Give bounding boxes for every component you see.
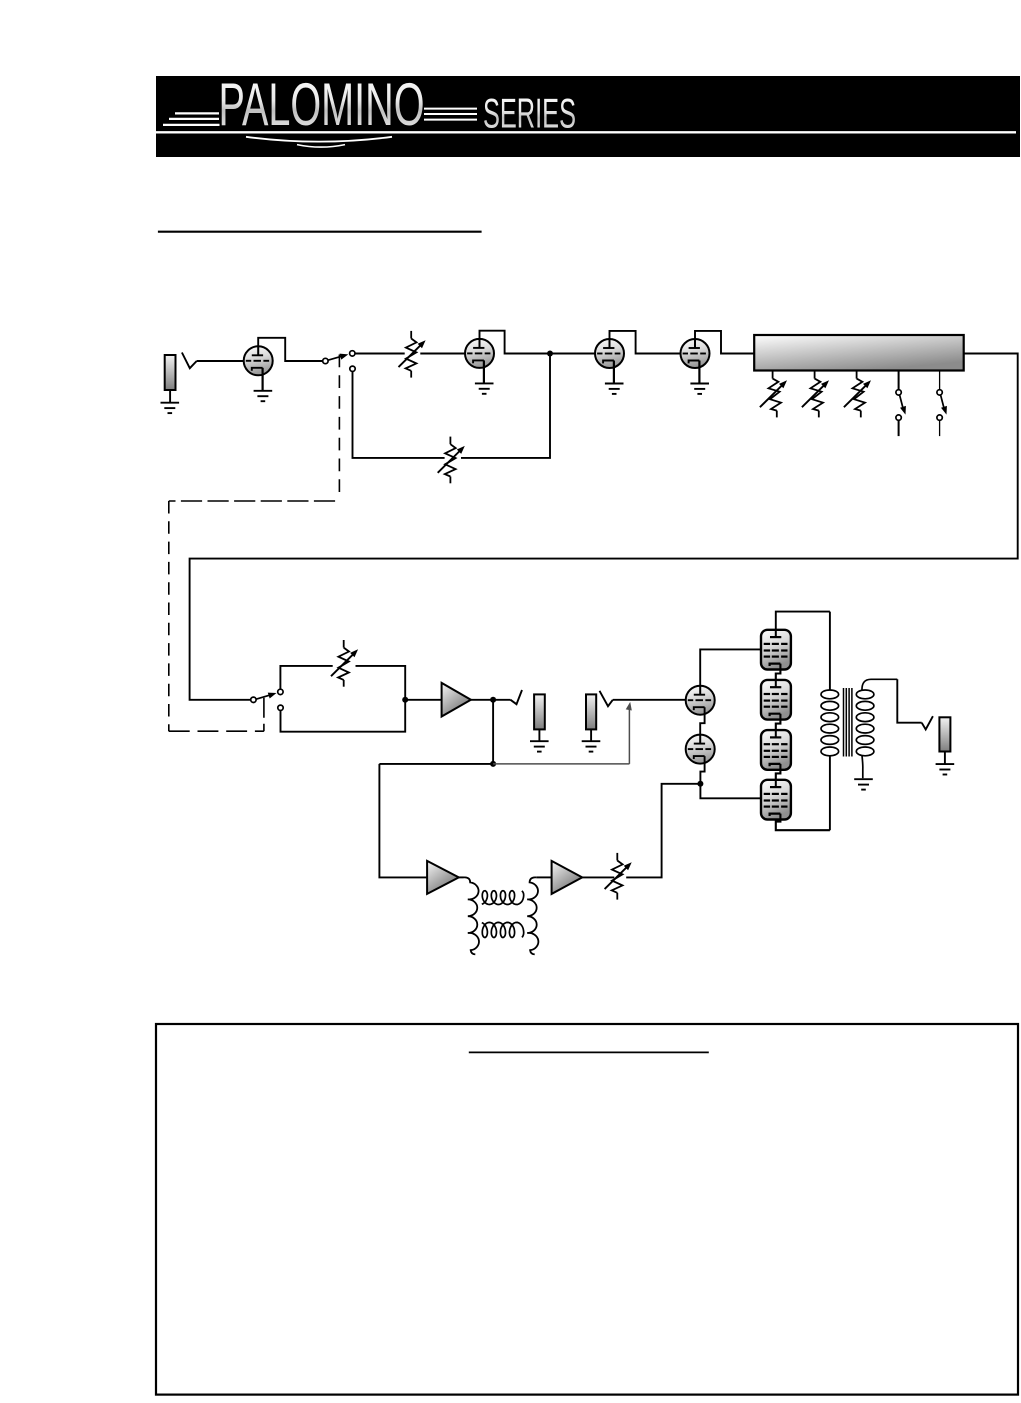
wire secondary to speaker jack	[897, 679, 921, 722]
wire node B to buffer amp	[405, 699, 441, 701]
output transformer T1 primary winding	[821, 612, 839, 831]
tone stack block U1	[754, 335, 964, 371]
triode tube V2B	[681, 339, 710, 368]
ground return jack	[582, 741, 601, 751]
channel select switch S1 pole	[323, 358, 328, 363]
switch S4 throw B	[278, 705, 283, 710]
ground speaker jack	[936, 764, 955, 774]
ground send jack	[530, 741, 549, 751]
node D junction	[490, 761, 496, 767]
wire input to V1A grid	[197, 360, 244, 362]
Palomino Series logo banner	[156, 70, 1020, 157]
wire throw A to gain pot	[355, 353, 405, 355]
notes title underline	[469, 1051, 709, 1053]
wire reverb pot to driver cathode node	[626, 784, 698, 878]
wire node E to power tube P4 grid	[700, 784, 761, 799]
wire A1 output to send node	[471, 699, 491, 701]
switch S1 throw A (drive channel)	[350, 351, 355, 356]
ground V1B cathode	[475, 383, 494, 393]
ground V1A cathode	[254, 391, 273, 401]
wire V2A cathode to ground	[613, 361, 615, 384]
wire node C to send jack	[493, 699, 510, 701]
wire bypass rail right (gray)	[493, 763, 629, 765]
triode tube V3A	[686, 686, 715, 715]
wire node C down to bypass rail	[492, 700, 494, 764]
power tube P4	[761, 780, 791, 820]
switch S3 (shape)	[937, 371, 950, 436]
reverb spring 2	[482, 922, 524, 937]
potentiometer R5 LEVEL	[438, 437, 467, 484]
wire gain pot to V1B grid	[420, 353, 465, 355]
potentiometer R3 MID	[802, 371, 831, 417]
wire jack J3 to ground	[590, 729, 592, 741]
wire A3 to reverb pot	[582, 876, 614, 878]
wire V2B cathode to ground	[698, 361, 700, 384]
node E junction	[697, 781, 703, 787]
wire clean volume pot to node A	[461, 354, 550, 458]
ground	[161, 403, 180, 413]
triode tube V1B	[465, 339, 494, 368]
svg-text:SERIES: SERIES	[483, 89, 576, 136]
wire P1 top to output transformer primary	[776, 612, 830, 630]
wire P2 cathode to P3	[776, 714, 781, 730]
ground V2B cathode	[690, 384, 709, 394]
reverb spring 1	[482, 891, 524, 905]
wire V1B plate to node A	[480, 331, 551, 354]
power tube P1	[761, 630, 791, 670]
wire P3 cathode to P4	[776, 764, 781, 780]
wire gray riser to return jack	[628, 707, 630, 764]
node A junction	[547, 351, 553, 357]
reverb recovery amp A3	[552, 861, 583, 894]
wire V1A plate to channel switch pole	[258, 338, 323, 361]
jack J4 speaker tip contact	[922, 716, 933, 729]
triode tube V2A	[595, 339, 624, 368]
wire return contact to driver V3A	[613, 699, 686, 701]
switch S1 blade	[328, 355, 345, 360]
wire P4 cathode to transformer primary bottom	[776, 814, 830, 831]
wire jack J4 to ground	[944, 752, 946, 764]
wire jack J2 to ground	[538, 729, 540, 741]
wire tone stack output to FX loop	[190, 354, 1018, 700]
wire reverb tap down	[379, 764, 427, 878]
wire V2A plate to V2B grid	[610, 331, 681, 354]
node B junction	[402, 697, 408, 703]
wire A2 to reverb tank	[459, 876, 464, 878]
dashed footswitch control line	[169, 355, 340, 732]
reverb drive amp A2	[427, 861, 459, 894]
wire tank to recovery amp A3	[536, 876, 551, 878]
output transformer T1 secondary winding	[856, 679, 897, 778]
wire V2B plate to tone stack	[695, 331, 754, 354]
buffer amp A1	[442, 683, 471, 717]
ground transformer secondary	[854, 779, 873, 789]
power tube P2	[761, 680, 791, 720]
input jack J1	[165, 355, 176, 390]
switch S2 (bright)	[896, 371, 909, 436]
section title underline	[158, 231, 482, 233]
power tube P3	[761, 730, 791, 770]
transformer T1 core	[844, 688, 852, 757]
potentiometer R4 TREBLE	[844, 371, 873, 417]
FX loop switch S4 pole	[251, 697, 256, 702]
jack J1 tip contact	[182, 353, 197, 369]
switch S4 throw A	[278, 689, 283, 694]
wire master pot to FX node	[281, 666, 406, 732]
wire P1 cathode to P2	[776, 664, 781, 680]
wire throw B down to clean volume pot	[353, 371, 445, 458]
wire V1A cathode to ground	[262, 368, 264, 391]
potentiometer R7 REVERB	[605, 853, 634, 900]
notes box	[156, 1024, 1018, 1395]
potentiometer R6 MASTER	[331, 640, 360, 687]
wire node A to V2A grid	[550, 353, 595, 355]
switch S1 throw B (clean channel)	[350, 366, 355, 371]
svg-text:PALOMINO: PALOMINO	[219, 70, 425, 138]
jack J2 send tip contact	[511, 690, 523, 704]
triode tube V1A	[244, 346, 273, 375]
wire FX loop upper path	[280, 666, 332, 689]
jack J3 return tip contact	[600, 691, 613, 706]
triode tube V3B	[686, 735, 715, 764]
reverb tank output coil L2	[527, 877, 538, 954]
wire V3A cathode to V3B	[700, 707, 704, 734]
wire V3A plate to power tube P1 grid	[700, 649, 761, 685]
potentiometer R2 BASS	[760, 371, 789, 417]
ground V2A cathode	[605, 384, 624, 394]
switch S4 blade	[256, 694, 273, 699]
node C junction	[490, 697, 496, 703]
wire V3B cathode to node E	[700, 756, 704, 784]
reverb tank input coil L1	[464, 877, 479, 954]
wire V1B cathode to ground	[483, 360, 485, 383]
potentiometer R1 GAIN	[399, 331, 428, 378]
wire jack J1 to ground	[169, 390, 171, 402]
wire bypass rail left	[379, 763, 493, 765]
